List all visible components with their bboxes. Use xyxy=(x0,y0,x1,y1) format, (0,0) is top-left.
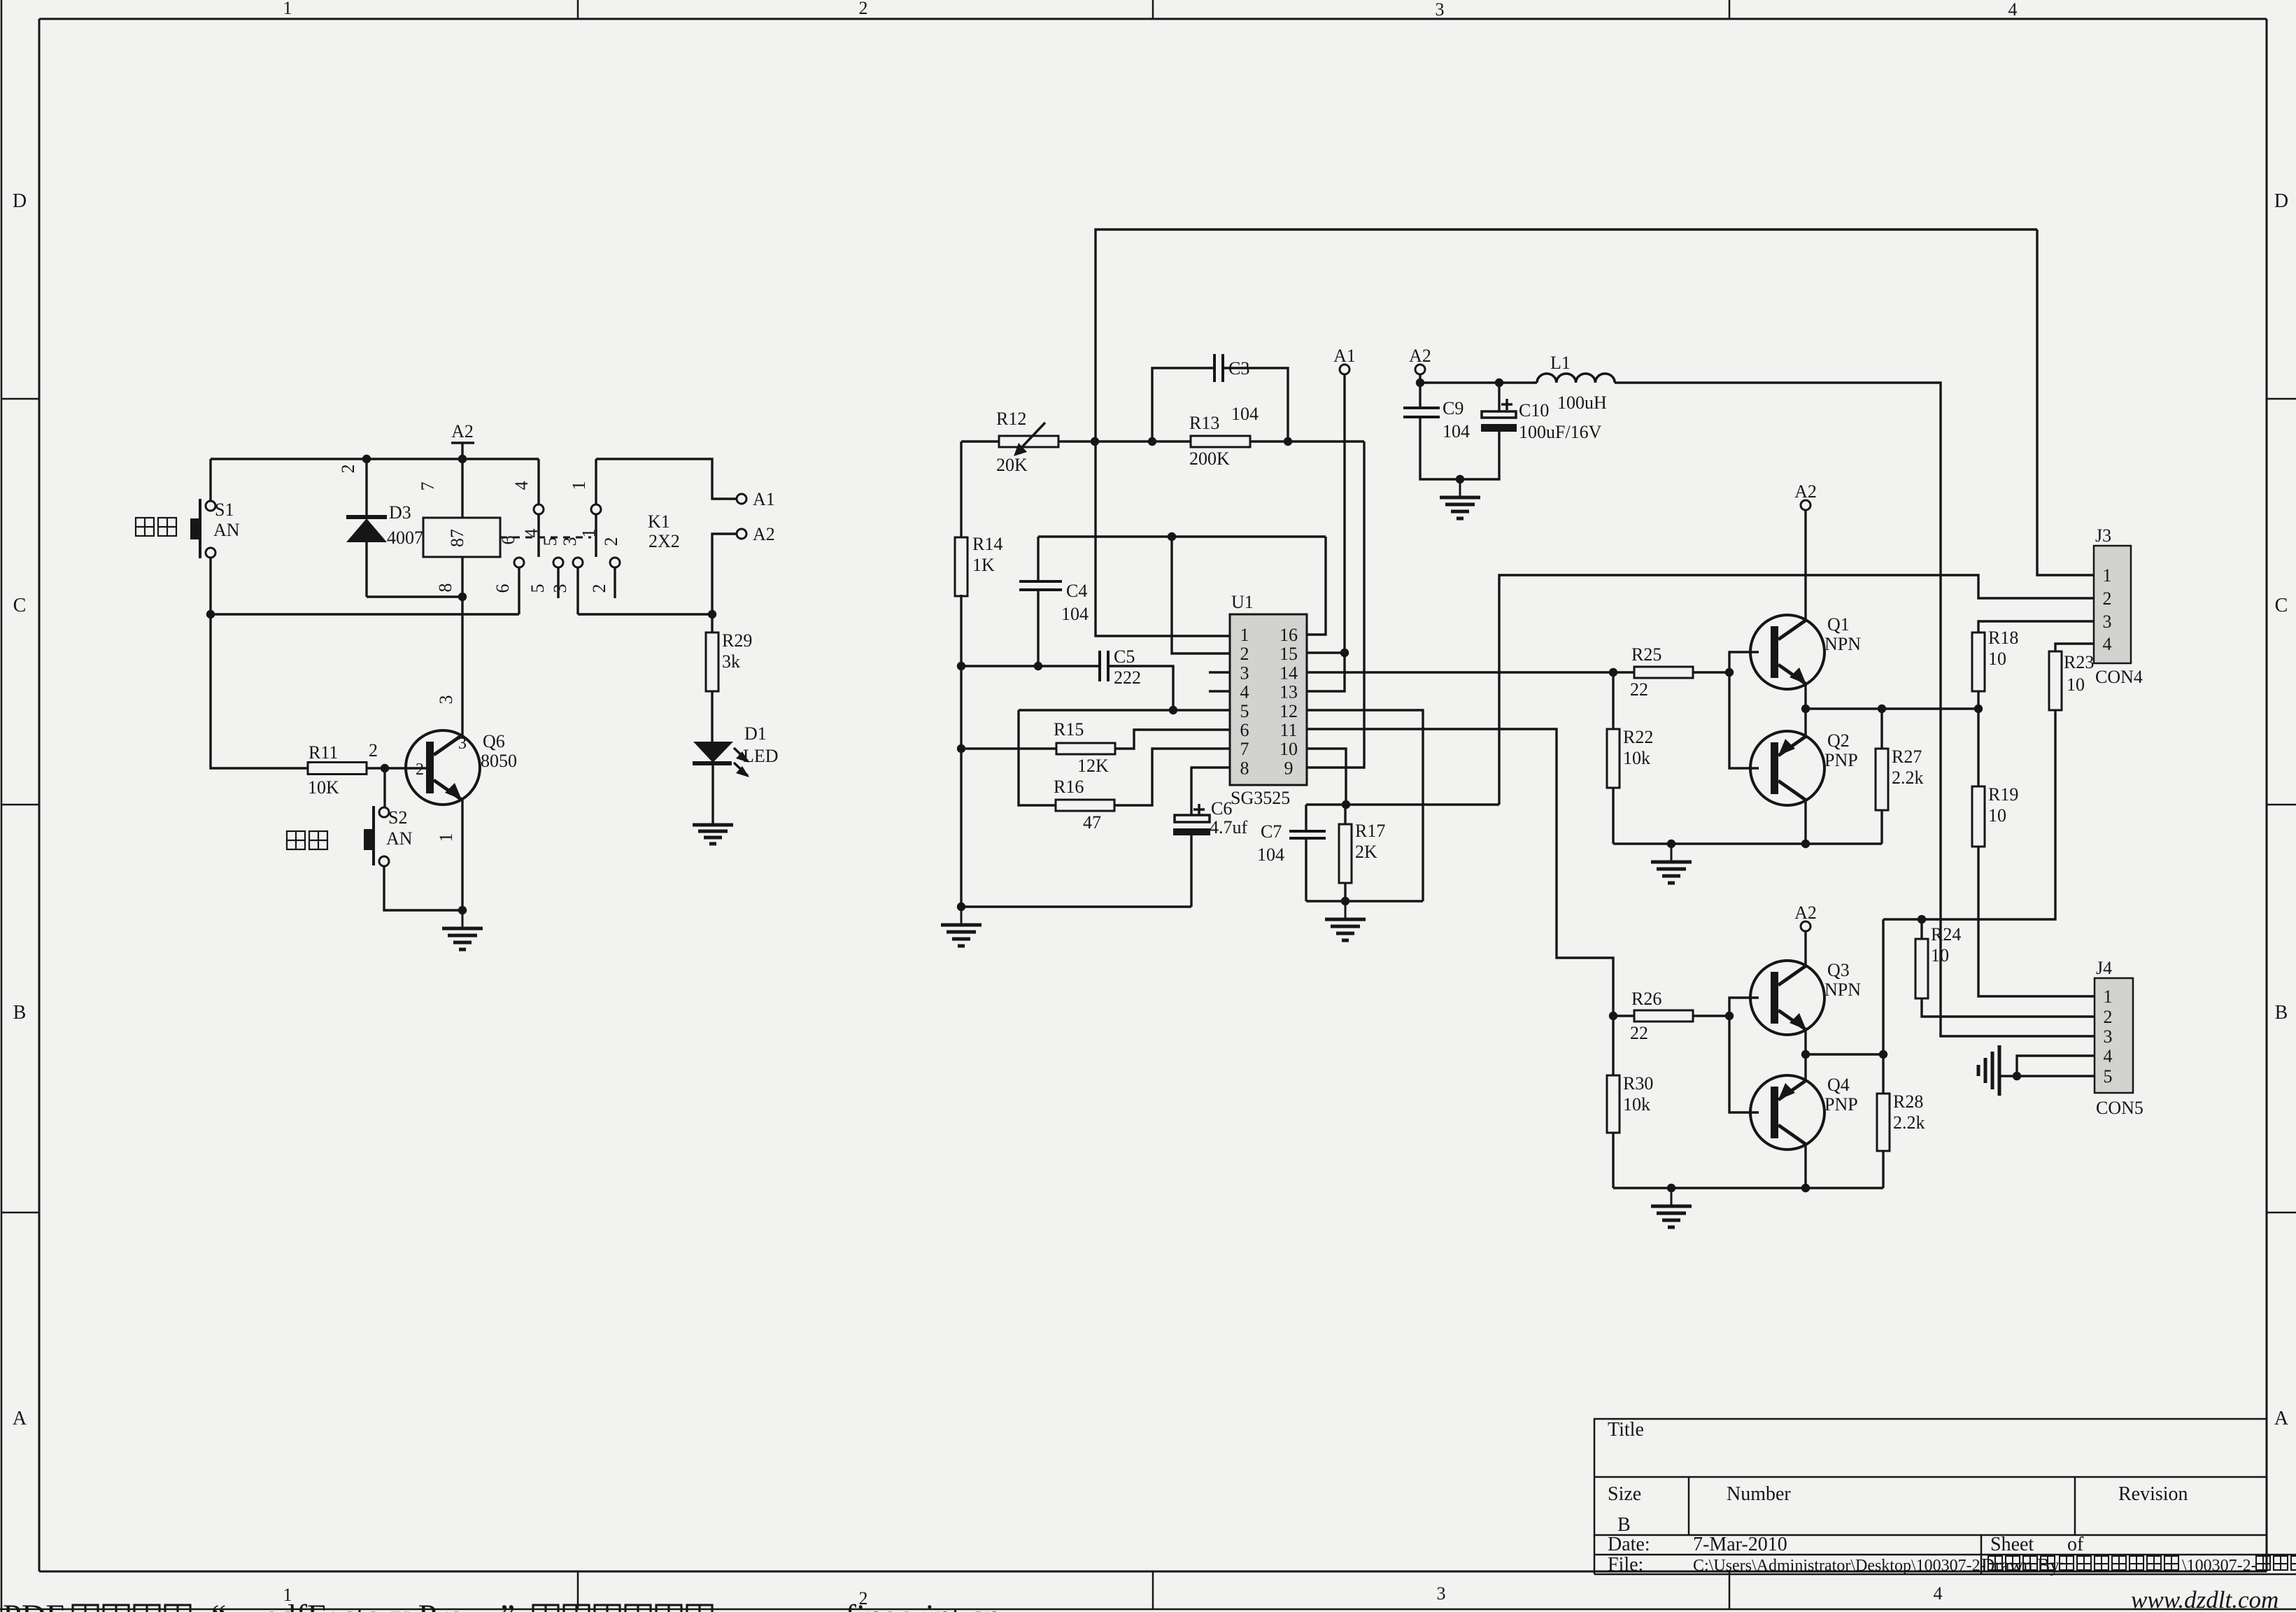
junction on rail at D3 xyxy=(362,455,371,463)
junction R24 top xyxy=(1918,915,1926,924)
wire Q3 emitter xyxy=(1804,1030,1806,1054)
junction R25 R22 xyxy=(1609,668,1617,677)
svg-text:4: 4 xyxy=(2104,1046,2113,1066)
svg-text:CON4: CON4 xyxy=(2095,667,2143,687)
wire L1 output to J4 pin3 xyxy=(1615,383,2095,1036)
svg-text:J3: J3 xyxy=(2095,525,2111,546)
svg-text:R18: R18 xyxy=(1988,628,2018,648)
svg-text:R29: R29 xyxy=(722,630,752,651)
svg-text:8: 8 xyxy=(1240,758,1249,778)
svg-text:PDF: PDF xyxy=(3,1598,64,1612)
svg-text:R26: R26 xyxy=(1631,989,1661,1009)
svg-text:C6: C6 xyxy=(1211,798,1232,819)
svg-text:Number: Number xyxy=(1727,1483,1791,1505)
svg-text:C5: C5 xyxy=(1114,646,1135,667)
wire terminal A2 down to R29 node xyxy=(712,534,737,614)
svg-text:104: 104 xyxy=(1257,844,1284,865)
svg-text:Sheet: Sheet xyxy=(1990,1534,2034,1555)
wire R17 bottom rail xyxy=(1306,900,1423,902)
resistor R30 10k xyxy=(1607,1016,1653,1188)
file path text xyxy=(1693,1555,2296,1576)
svg-text:12: 12 xyxy=(1280,701,1298,721)
resistor R16 47 xyxy=(1019,710,1230,833)
svg-text:C4: C4 xyxy=(1066,581,1087,601)
svg-text:A: A xyxy=(13,1408,27,1429)
svg-text:7: 7 xyxy=(418,482,438,491)
svg-text:S1: S1 xyxy=(215,500,234,520)
svg-text:R12: R12 xyxy=(996,409,1026,429)
svg-text:S2: S2 xyxy=(388,807,407,828)
svg-text:2.2k: 2.2k xyxy=(1893,1112,1925,1133)
svg-text:pdfFactory Pro: pdfFactory Pro xyxy=(262,1598,465,1612)
svg-text:104: 104 xyxy=(1061,604,1089,624)
svg-text:Q1: Q1 xyxy=(1827,614,1850,635)
svg-text:3: 3 xyxy=(2104,1026,2113,1047)
wire pin14 to R25 xyxy=(1307,671,1613,673)
svg-text:8050: 8050 xyxy=(481,751,517,771)
svg-text:4: 4 xyxy=(1934,1583,1943,1604)
resistor R28 2.2k xyxy=(1877,1054,1925,1188)
svg-text:A2: A2 xyxy=(451,421,474,441)
junction pin10 R17 C7 xyxy=(1342,800,1350,809)
svg-text:3: 3 xyxy=(1436,0,1445,20)
svg-text:2: 2 xyxy=(859,0,868,18)
wire Q6 collector xyxy=(461,735,463,739)
svg-text:11: 11 xyxy=(1280,720,1297,740)
pushbutton S2 xyxy=(364,768,413,866)
svg-text:22: 22 xyxy=(1630,679,1648,700)
svg-text:K1: K1 xyxy=(648,511,670,532)
wire Q1 Q2 ground rail xyxy=(1613,842,1882,844)
relay contact A pins 4-6 xyxy=(514,459,544,614)
svg-text:D: D xyxy=(13,190,27,212)
wire pin12 to ground rail xyxy=(1307,710,1423,901)
resistor R11 10K xyxy=(308,742,427,798)
junction Q4 collector xyxy=(1801,1184,1810,1192)
svg-text:C7: C7 xyxy=(1261,821,1282,842)
svg-text:R13: R13 xyxy=(1189,413,1219,433)
svg-text:13: 13 xyxy=(1280,682,1298,702)
junction S1 bottom xyxy=(206,610,215,618)
resistor R14 1K xyxy=(955,441,1002,596)
svg-text:R25: R25 xyxy=(1631,644,1661,665)
svg-text:Q3: Q3 xyxy=(1827,960,1850,980)
wire A2 row to L1 xyxy=(1420,381,1537,383)
svg-text:10: 10 xyxy=(1931,945,1949,966)
svg-text:1: 1 xyxy=(283,0,292,18)
svg-text:4: 4 xyxy=(2008,0,2018,20)
transistor Q2 PNP xyxy=(1750,730,1858,805)
wire gnd vertical R15 row xyxy=(960,666,962,749)
svg-text:12K: 12K xyxy=(1077,756,1109,776)
ground at Q6 xyxy=(462,910,464,928)
svg-text:R17: R17 xyxy=(1355,821,1385,841)
resistor R13 200K xyxy=(1189,413,1250,469)
svg-text:8: 8 xyxy=(435,584,455,593)
wire R14 bottom to gnd net xyxy=(960,595,962,666)
junction bottom rail C6 xyxy=(957,903,965,911)
junction Q2 collector xyxy=(1801,840,1810,848)
terminal A2 at Q1 xyxy=(1794,481,1817,510)
svg-text:3: 3 xyxy=(436,695,456,705)
junction C5 row left xyxy=(957,662,965,670)
svg-text:C: C xyxy=(2275,595,2288,616)
svg-text:of: of xyxy=(2067,1534,2084,1555)
svg-text:14: 14 xyxy=(1280,663,1298,683)
ground at oscillator net xyxy=(961,907,963,925)
wire pin11 to R26 xyxy=(1307,729,1613,1016)
svg-text:R24: R24 xyxy=(1931,924,1961,945)
svg-text:C3: C3 xyxy=(1228,358,1249,379)
wire R12 to R13 xyxy=(1058,440,1191,442)
svg-text:6: 6 xyxy=(492,584,513,593)
potentiometer R12 20K xyxy=(961,409,1058,475)
svg-text:PNP: PNP xyxy=(1824,1094,1858,1115)
wire S2 bottom to emitter node xyxy=(384,866,462,910)
svg-text:www.fineprint.cn: www.fineprint.cn xyxy=(766,1598,1000,1612)
svg-text:A2: A2 xyxy=(753,524,775,544)
junction R29 node xyxy=(708,610,716,618)
svg-text:A1: A1 xyxy=(753,489,775,509)
terminal A2 at Q3 xyxy=(1794,903,1817,931)
svg-text:200K: 200K xyxy=(1189,448,1230,469)
relay K1 coil xyxy=(423,459,500,739)
svg-text:7: 7 xyxy=(1240,739,1249,759)
wire J4 pin4 to ground xyxy=(2017,1056,2095,1076)
junction R25 to base split xyxy=(1725,668,1734,677)
wire gnd vertical to bottom rail xyxy=(960,749,962,907)
junction R18 R19 emitters xyxy=(1974,705,1983,713)
wire Q3 emitter net riser xyxy=(1882,919,1884,1054)
svg-text:Title: Title xyxy=(1608,1419,1644,1441)
junction R26 to base split xyxy=(1725,1012,1734,1020)
wire J4 pin5 to ground xyxy=(1999,1075,2095,1077)
wire S1 bottom rail to contact 6 xyxy=(211,613,519,615)
svg-text:10: 10 xyxy=(2067,674,2085,695)
wire Q2 emitter up xyxy=(1804,709,1806,736)
pin stub 3 nc xyxy=(1209,671,1230,674)
label K1 2X2 xyxy=(648,511,680,551)
svg-text:4: 4 xyxy=(2103,634,2112,654)
ground at C9 C10 xyxy=(1459,479,1461,497)
junction rail ground xyxy=(1667,840,1675,848)
svg-text:SG3525: SG3525 xyxy=(1231,788,1290,808)
svg-text:Drawn By:: Drawn By: xyxy=(1981,1555,2064,1576)
junction C5 to pin5 row xyxy=(1169,706,1177,714)
svg-text:100uF/16V: 100uF/16V xyxy=(1519,422,1602,442)
svg-text:1: 1 xyxy=(569,481,589,490)
svg-text:104: 104 xyxy=(1231,404,1259,424)
svg-text:3: 3 xyxy=(1240,663,1249,683)
svg-text:2K: 2K xyxy=(1355,842,1377,862)
junction R27 top xyxy=(1878,705,1886,713)
svg-text:\100307-2-: \100307-2- xyxy=(2182,1557,2257,1575)
junction C3 tap right xyxy=(1284,437,1292,446)
svg-text:Q2: Q2 xyxy=(1827,730,1850,751)
IC U1 SG3525 xyxy=(1230,592,1307,808)
resistor R26 22 xyxy=(1613,989,1729,1043)
ground at Q3 Q4 rail xyxy=(1671,1188,1673,1206)
svg-text:J4: J4 xyxy=(2096,958,2112,978)
svg-text:D: D xyxy=(2274,190,2288,212)
capacitor C7 104 xyxy=(1257,805,1326,901)
transistor Q1 NPN xyxy=(1750,614,1861,689)
svg-text:“: “ xyxy=(211,1598,226,1612)
junction C9 C10 ground xyxy=(1456,475,1464,483)
LED D1 xyxy=(693,723,779,824)
svg-text:2: 2 xyxy=(1240,644,1249,664)
svg-text:A: A xyxy=(2274,1408,2289,1429)
junction pin1 net at R12-R13 row xyxy=(1091,437,1099,446)
svg-text:B: B xyxy=(13,1002,27,1024)
junction Q1 Q2 emitters xyxy=(1801,705,1810,713)
resistor R22 10k xyxy=(1607,672,1653,844)
svg-text:NPN: NPN xyxy=(1824,634,1861,654)
svg-text:222: 222 xyxy=(1114,667,1141,688)
junction Q3 Q4 emitters xyxy=(1801,1050,1810,1059)
junction rail ground 2 xyxy=(1667,1184,1675,1192)
power symbol A2 top xyxy=(451,421,474,459)
svg-text:L1: L1 xyxy=(1550,353,1571,373)
svg-text:47: 47 xyxy=(1083,812,1101,833)
ground at Q1 Q2 rail xyxy=(1671,844,1673,862)
svg-text:1K: 1K xyxy=(972,555,995,575)
svg-text:5: 5 xyxy=(527,584,548,593)
svg-text:NPN: NPN xyxy=(1824,980,1861,1000)
svg-text:2: 2 xyxy=(416,761,424,779)
wire R13 right to pin9 drop xyxy=(1250,440,1364,442)
svg-text:2: 2 xyxy=(338,465,358,474)
terminal A1 mid xyxy=(1333,346,1356,374)
svg-text:20K: 20K xyxy=(996,455,1028,475)
svg-text:2: 2 xyxy=(2104,1007,2113,1027)
svg-text:R16: R16 xyxy=(1054,777,1084,797)
wire emitter row to R18 xyxy=(1806,707,1978,709)
wire K1 pin1 to terminal A1 xyxy=(596,459,737,499)
svg-text:A2: A2 xyxy=(1409,346,1431,366)
wire pin10 net to R17 row xyxy=(1307,749,1346,805)
svg-text:22: 22 xyxy=(1630,1023,1648,1043)
svg-text:A2: A2 xyxy=(1794,903,1817,923)
svg-text:R15: R15 xyxy=(1054,719,1084,740)
junction pin2 drop xyxy=(1168,532,1176,541)
wire Q2 collector down xyxy=(1804,800,1806,844)
svg-text:Date:: Date: xyxy=(1608,1534,1650,1555)
wire pin15 stub xyxy=(1307,651,1345,653)
svg-text:B: B xyxy=(1617,1514,1631,1536)
junction R11/S2/Q6 base xyxy=(381,764,389,772)
transistor Q4 PNP xyxy=(1750,1075,1858,1150)
junction Q6 emitter/S2/ground xyxy=(458,906,467,914)
wire contact3 to R29 node xyxy=(578,613,712,615)
svg-text:”: ” xyxy=(500,1598,515,1612)
wire R17 row xyxy=(1306,803,1499,805)
svg-text:C9: C9 xyxy=(1443,398,1464,418)
junction R26 R30 xyxy=(1609,1012,1617,1020)
capacitor C10 100uF/16V electrolytic xyxy=(1460,383,1602,479)
svg-text:104: 104 xyxy=(1443,421,1470,441)
svg-text:U1: U1 xyxy=(1231,592,1254,612)
resistor R29 3k xyxy=(706,614,752,742)
wire Q6 emitter xyxy=(461,800,463,910)
svg-text:AN: AN xyxy=(386,828,413,849)
svg-text:Revision: Revision xyxy=(2118,1483,2188,1505)
wire R23 bottom to Q3 net xyxy=(1883,710,2055,919)
wire A2 to Q3 collector xyxy=(1804,931,1806,966)
wire R19 to J4 pin1 xyxy=(1978,847,2095,996)
junction R15 row xyxy=(957,744,965,753)
svg-text:4: 4 xyxy=(1240,682,1249,702)
svg-text:1: 1 xyxy=(2103,565,2112,586)
svg-text:B: B xyxy=(2275,1002,2288,1024)
svg-text:87: 87 xyxy=(447,529,467,547)
svg-text:10K: 10K xyxy=(308,777,339,798)
svg-text:R22: R22 xyxy=(1623,727,1653,747)
inductor L1 100uH xyxy=(1537,353,1615,413)
wire A2 to L1 node xyxy=(1419,374,1421,383)
ground at R17 xyxy=(1345,901,1347,919)
wire top rail A2 net xyxy=(211,458,539,460)
wire emitter row 2 xyxy=(1806,1053,1883,1055)
resistor R17 2K xyxy=(1339,805,1385,901)
junction J4 ground xyxy=(2013,1072,2021,1080)
svg-text:R23: R23 xyxy=(2064,652,2094,672)
wire D3 anode to coil pin8 node xyxy=(367,595,462,598)
svg-text:3: 3 xyxy=(2103,611,2112,632)
svg-text:A2: A2 xyxy=(1794,481,1817,502)
transistor Q6 8050 xyxy=(406,730,517,805)
connector J3 CON4 xyxy=(2094,525,2143,687)
capacitor C5 222 xyxy=(1100,646,1173,710)
junction A2 C9 xyxy=(1416,379,1424,387)
wire C6 bottom rail xyxy=(961,905,1191,907)
svg-text:D1: D1 xyxy=(744,723,767,744)
svg-text:4.7uf: 4.7uf xyxy=(1210,817,1248,837)
resistor R19 10 xyxy=(1972,709,2018,847)
diode D3 4007 xyxy=(346,459,423,597)
svg-text:2: 2 xyxy=(601,537,621,546)
svg-text:4: 4 xyxy=(511,481,532,490)
connector J4 CON5 xyxy=(2095,958,2143,1118)
svg-text:R28: R28 xyxy=(1893,1091,1923,1112)
wire rail to R11 xyxy=(211,614,308,768)
svg-text:3k: 3k xyxy=(722,651,740,672)
svg-text:10k: 10k xyxy=(1623,1094,1650,1115)
capacitor C9 104 xyxy=(1403,383,1470,479)
svg-text:9: 9 xyxy=(1284,758,1294,778)
wire pin16 vertical xyxy=(1307,537,1326,635)
wire top rail Vref loop xyxy=(1096,229,2037,441)
svg-text:Q6: Q6 xyxy=(483,731,505,751)
svg-text:5: 5 xyxy=(1240,701,1249,721)
svg-text:10k: 10k xyxy=(1623,748,1650,768)
wire Q4 collector down xyxy=(1804,1145,1806,1188)
svg-text:CON5: CON5 xyxy=(2096,1098,2143,1118)
svg-text:R14: R14 xyxy=(972,534,1002,554)
svg-text:PNP: PNP xyxy=(1824,750,1858,770)
pushbutton S1 xyxy=(190,459,240,614)
svg-text:C:\Users\Administrator\Desktop: C:\Users\Administrator\Desktop\100307-2- xyxy=(1693,1557,1986,1575)
resistor R18 10 xyxy=(1972,621,2094,709)
junction pin15 on A1 vertical xyxy=(1340,649,1349,657)
svg-text:C: C xyxy=(13,595,27,616)
svg-text:2X2: 2X2 xyxy=(649,531,680,551)
wire Q3 Q4 base split xyxy=(1729,998,1759,1112)
wire Q3 Q4 ground rail xyxy=(1613,1187,1883,1189)
wire pin5 row xyxy=(1019,709,1230,711)
svg-text:100uH: 100uH xyxy=(1557,393,1607,413)
svg-text:4007: 4007 xyxy=(387,528,423,548)
svg-text:R30: R30 xyxy=(1623,1073,1653,1094)
label guan-ji (power off) xyxy=(287,831,305,849)
wire pin2 connection xyxy=(1172,537,1230,653)
capacitor C6 4.7uf electrolytic xyxy=(1173,768,1248,907)
svg-text:3: 3 xyxy=(550,584,570,593)
wire Q1 emitter xyxy=(1804,684,1806,709)
resistor R25 22 xyxy=(1613,644,1729,700)
junction R17 ground xyxy=(1341,897,1349,905)
relay linkage dashed xyxy=(500,537,591,539)
svg-text:D3: D3 xyxy=(389,502,411,523)
capacitor C4 104 xyxy=(1019,537,1089,666)
svg-text:7-Mar-2010: 7-Mar-2010 xyxy=(1693,1534,1787,1555)
resistor R15 12K xyxy=(961,719,1230,776)
svg-text:A1: A1 xyxy=(1333,346,1356,366)
label kai-ji (power on) xyxy=(136,518,154,536)
svg-text:2: 2 xyxy=(589,584,609,593)
transistor Q3 NPN xyxy=(1750,960,1861,1035)
wire top rail to J3 pin1 xyxy=(2037,229,2094,575)
wire A2 to Q1 collector xyxy=(1804,510,1806,620)
pin stub 4 nc xyxy=(1209,690,1230,693)
relay contact B pins 1-3 with throws 5,2 xyxy=(553,459,620,614)
wire Q4 emitter up xyxy=(1804,1054,1806,1080)
svg-text:2: 2 xyxy=(369,740,378,761)
svg-text:2: 2 xyxy=(2103,588,2112,609)
ground left-facing at J4 xyxy=(1998,1045,2001,1096)
title block xyxy=(1594,1419,2296,1576)
wire pin9 net vertical xyxy=(1307,441,1364,768)
junction R28 top xyxy=(1879,1050,1887,1059)
svg-text:Q4: Q4 xyxy=(1827,1075,1850,1095)
wire pin1 connection xyxy=(1096,441,1230,636)
svg-text:Size: Size xyxy=(1608,1483,1641,1505)
svg-text:File:: File: xyxy=(1608,1554,1643,1576)
svg-text:1: 1 xyxy=(2104,987,2113,1007)
svg-text:10: 10 xyxy=(1988,805,2006,826)
junction C3 tap left xyxy=(1148,437,1156,446)
wire C5 row xyxy=(961,665,1100,667)
wire A1 vertical to pins 15 13 xyxy=(1307,374,1345,691)
svg-text:10: 10 xyxy=(1280,739,1298,759)
resistor R23 10 xyxy=(2049,644,2094,710)
wire pin16 Vref horizontal xyxy=(1038,535,1326,537)
wire pin10 net to J3 pin2 xyxy=(1499,575,2094,805)
capacitor C3 104 xyxy=(1152,354,1288,441)
svg-text:www.dzdlt.com: www.dzdlt.com xyxy=(2131,1586,2279,1612)
resistor R24 10 xyxy=(1915,919,2095,1017)
svg-text:R27: R27 xyxy=(1892,747,1922,767)
svg-text:R11: R11 xyxy=(309,742,338,763)
wire Q1 Q2 base split xyxy=(1729,652,1759,768)
junction C10 tap xyxy=(1495,379,1503,387)
junction on rail at K1 coil pin7 xyxy=(458,455,467,463)
junction D3/coil8/Q6 xyxy=(458,593,467,601)
watermark pdfFactory xyxy=(3,1598,1000,1612)
svg-text:3: 3 xyxy=(1437,1583,1446,1604)
svg-text:10: 10 xyxy=(1988,649,2006,669)
svg-text:LED: LED xyxy=(743,746,779,766)
